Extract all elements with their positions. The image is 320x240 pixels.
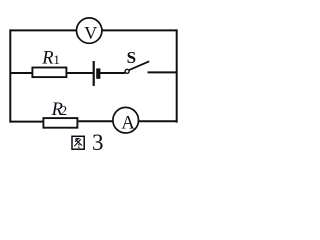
svg-text:1: 1: [53, 52, 60, 67]
svg-text:V: V: [84, 23, 97, 43]
svg-text:A: A: [121, 114, 135, 134]
svg-text:R: R: [41, 49, 53, 69]
svg-text:3: 3: [92, 130, 104, 155]
svg-text:S: S: [127, 48, 136, 67]
svg-text:2: 2: [60, 103, 67, 118]
